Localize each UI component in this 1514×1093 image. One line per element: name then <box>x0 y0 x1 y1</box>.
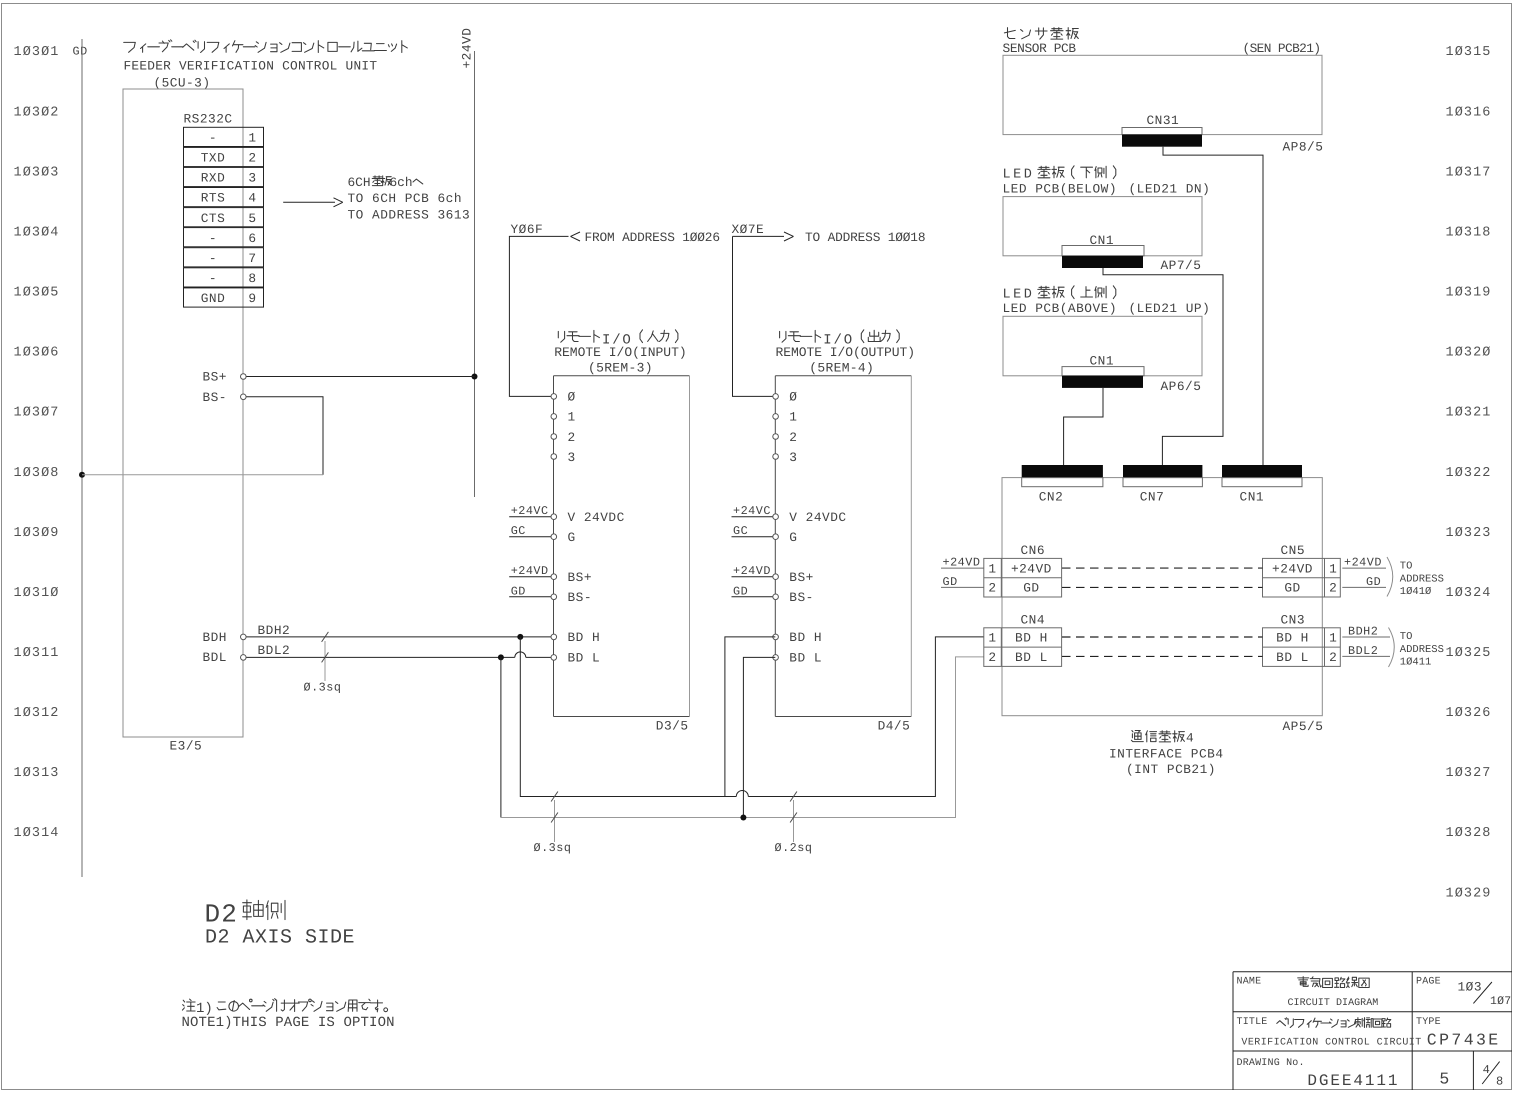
svg-text:YØ6F: YØ6F <box>511 222 544 237</box>
title block page cell <box>1416 976 1511 1008</box>
dashed wire CN6-CN5 +24VD <box>1062 567 1263 569</box>
svg-text:1Ø3Ø9: 1Ø3Ø9 <box>14 526 60 541</box>
svg-text:1Ø3: 1Ø3 <box>1458 980 1483 995</box>
svg-text:(5REM-4): (5REM-4) <box>809 360 874 375</box>
svg-text:+24VC: +24VC <box>733 504 771 518</box>
connector CN3 <box>1263 613 1341 667</box>
svg-text:BDH2: BDH2 <box>258 623 291 638</box>
svg-text:3: 3 <box>248 171 256 186</box>
title block type cell <box>1416 1017 1501 1050</box>
svg-text:+24VD: +24VD <box>733 564 771 578</box>
pin BS+ <box>241 374 247 380</box>
svg-text:BS+: BS+ <box>789 570 814 585</box>
svg-text:GD: GD <box>511 584 526 598</box>
wire GD vertical <box>81 39 83 877</box>
svg-text:+24VD: +24VD <box>1344 556 1382 570</box>
svg-text:2: 2 <box>248 151 256 166</box>
svg-text:CN1: CN1 <box>1240 489 1265 504</box>
svg-text:BS-: BS- <box>568 590 593 605</box>
svg-text:1Ø316: 1Ø316 <box>1446 105 1492 120</box>
net stub +24VD at CN6 <box>941 567 984 569</box>
svg-text:1Ø32Ø: 1Ø32Ø <box>1446 346 1492 361</box>
right margin line numbers 10315-10329 <box>1446 45 1492 901</box>
svg-text:AP7/5: AP7/5 <box>1161 258 1202 273</box>
wire BD H bus (D3/5 to CN4 pin1) <box>520 637 736 797</box>
net stub BDH2 at CN3 <box>1342 636 1390 638</box>
wire CN1 above to CN2 <box>1064 388 1103 465</box>
junction BDL2 node <box>498 654 504 660</box>
svg-text:GD: GD <box>73 45 88 59</box>
svg-text:3: 3 <box>568 450 576 465</box>
svg-text:1Ø411: 1Ø411 <box>1400 656 1432 668</box>
svg-text:(INT PCB21): (INT PCB21) <box>1126 762 1216 777</box>
svg-text:1Ø312: 1Ø312 <box>14 706 60 721</box>
svg-text:CIRCUIT DIAGRAM: CIRCUIT DIAGRAM <box>1288 998 1379 1009</box>
svg-text:BDL2: BDL2 <box>1348 644 1378 658</box>
svg-text:BS-: BS- <box>202 390 227 405</box>
net stub +24VD (input) <box>509 576 553 578</box>
wire +24VD vertical <box>474 51 476 497</box>
svg-text:AP6/5: AP6/5 <box>1161 379 1202 394</box>
svg-text:1Ø3Ø4: 1Ø3Ø4 <box>14 225 60 240</box>
svg-text:1Ø3Ø1: 1Ø3Ø1 <box>14 45 60 60</box>
dashed wire CN6-CN5 GD <box>1062 586 1263 588</box>
svg-text:1Ø41Ø: 1Ø41Ø <box>1400 586 1432 598</box>
remote I/O output pins <box>773 394 779 400</box>
svg-text:1Ø322: 1Ø322 <box>1446 466 1492 481</box>
svg-text:1Ø324: 1Ø324 <box>1446 586 1492 601</box>
svg-text:FEEDER VERIFICATION CONTROL UN: FEEDER VERIFICATION CONTROL UNIT <box>124 59 378 74</box>
svg-text:-: - <box>209 131 217 146</box>
svg-text:-: - <box>209 231 217 246</box>
title block title cell <box>1237 1017 1422 1048</box>
svg-text:BD H: BD H <box>1276 631 1309 646</box>
svg-text:4: 4 <box>1186 730 1194 745</box>
wire CN1 below to CN7 <box>1103 268 1223 465</box>
sensor PCB box <box>1003 55 1322 134</box>
svg-text:1Ø3Ø2: 1Ø3Ø2 <box>14 105 60 120</box>
wire BS- to GD <box>243 397 323 475</box>
svg-text:TO ADDRESS 3613: TO ADDRESS 3613 <box>348 208 471 223</box>
svg-text:GD: GD <box>1366 575 1381 589</box>
svg-text:TO: TO <box>1400 560 1413 572</box>
net stub +24VD (output) <box>732 576 775 578</box>
svg-text:GND: GND <box>201 291 226 306</box>
svg-text:BDL2: BDL2 <box>258 643 291 658</box>
svg-text:(LED21 UP): (LED21 UP) <box>1129 301 1211 316</box>
connector CN4 <box>984 613 1062 667</box>
svg-text:1: 1 <box>248 131 256 146</box>
feeder verification control unit 5CU-3 title <box>124 40 408 53</box>
LED PCB below title <box>1003 166 1211 197</box>
svg-text:2: 2 <box>1329 650 1337 665</box>
connector CN2 <box>1022 465 1103 478</box>
pin BDH <box>241 634 247 640</box>
svg-text:1Ø315: 1Ø315 <box>1446 45 1492 60</box>
annotation 6CH PCB address <box>348 175 471 223</box>
svg-text:BDL: BDL <box>202 650 227 665</box>
svg-text:Ø.2sq: Ø.2sq <box>775 841 813 855</box>
svg-text:AP5/5: AP5/5 <box>1283 719 1324 734</box>
svg-text:Ø: Ø <box>789 390 797 405</box>
svg-text:1Ø314: 1Ø314 <box>14 826 60 841</box>
svg-text:+24VD: +24VD <box>943 556 981 570</box>
svg-text:D2: D2 <box>205 900 239 930</box>
svg-text:GC: GC <box>733 524 748 538</box>
LED PCB above title <box>1003 286 1211 316</box>
svg-text:1Ø31Ø: 1Ø31Ø <box>14 586 60 601</box>
note 1 this page is option <box>182 999 395 1031</box>
svg-text:CN5: CN5 <box>1281 543 1306 558</box>
svg-text:CN6: CN6 <box>1021 543 1046 558</box>
svg-text:+24VC: +24VC <box>511 504 549 518</box>
wire gauge callout 0.3sq middle <box>554 800 556 842</box>
svg-text:5: 5 <box>248 211 256 226</box>
wire BD L bus (D3/5 to CN4 pin2) <box>500 657 502 817</box>
svg-text:2: 2 <box>1329 581 1337 596</box>
svg-text:1Ø329: 1Ø329 <box>1446 886 1492 901</box>
LED PCB above box <box>1003 316 1202 376</box>
svg-text:RS232C: RS232C <box>184 112 233 127</box>
wire X07E <box>733 236 776 396</box>
svg-text:D3/5: D3/5 <box>656 718 689 733</box>
svg-text:LED PCB(BELOW): LED PCB(BELOW) <box>1003 181 1118 196</box>
junction GD / BS- node <box>79 472 85 478</box>
svg-text:TO ADDRESS 1ØØ18: TO ADDRESS 1ØØ18 <box>805 230 926 245</box>
wire CN31 to CN1 <box>1163 147 1263 465</box>
dashed wire CN4-CN3 BD H <box>1062 636 1263 638</box>
svg-text:CN4: CN4 <box>1021 613 1046 628</box>
svg-text:LED PCB(ABOVE): LED PCB(ABOVE) <box>1003 301 1118 316</box>
svg-text:INTERFACE PCB4: INTERFACE PCB4 <box>1109 746 1224 761</box>
sensor PCB title <box>1004 28 1078 39</box>
brace to address 10411 <box>1389 628 1395 668</box>
wire Y06F <box>509 236 568 396</box>
svg-text:1Ø318: 1Ø318 <box>1446 225 1492 240</box>
arrow from address 10026 <box>571 232 581 241</box>
svg-text:1Ø313: 1Ø313 <box>14 766 60 781</box>
control unit 5CU-3 box <box>123 89 243 737</box>
svg-text:2: 2 <box>789 430 797 445</box>
svg-text:1Ø3Ø8: 1Ø3Ø8 <box>14 466 60 481</box>
svg-text:1Ø319: 1Ø319 <box>1446 286 1492 301</box>
svg-text:8: 8 <box>248 271 256 286</box>
svg-text:5: 5 <box>1439 1070 1449 1089</box>
wire BDH2 <box>243 636 554 638</box>
svg-text:Ø: Ø <box>568 390 576 405</box>
svg-text:(LED21 DN): (LED21 DN) <box>1129 181 1211 196</box>
svg-text:1Ø3Ø5: 1Ø3Ø5 <box>14 286 60 301</box>
svg-text:G: G <box>789 530 797 545</box>
svg-text:1Ø317: 1Ø317 <box>1446 165 1492 180</box>
remote I/O input 5REM-3 title <box>558 330 599 342</box>
net stub +24VC (output) <box>732 516 775 518</box>
svg-text:SENSOR PCB: SENSOR PCB <box>1003 41 1077 56</box>
svg-text:TO: TO <box>1400 631 1413 643</box>
svg-text:DRAWING No.: DRAWING No. <box>1237 1058 1305 1069</box>
svg-text:ADDRESS: ADDRESS <box>1400 573 1444 585</box>
svg-text:4: 4 <box>248 191 256 206</box>
svg-text:G: G <box>568 530 576 545</box>
svg-text:Ø.3sq: Ø.3sq <box>304 681 342 695</box>
net stub GD (output) <box>732 596 775 598</box>
svg-text:V 24VDC: V 24VDC <box>568 510 625 525</box>
svg-text:1Ø327: 1Ø327 <box>1446 766 1492 781</box>
svg-text:BS-: BS- <box>789 590 814 605</box>
svg-text:CTS: CTS <box>201 211 226 226</box>
svg-text:2: 2 <box>988 581 996 596</box>
svg-text:1Ø326: 1Ø326 <box>1446 706 1492 721</box>
dashed wire CN4-CN3 BD L <box>1062 655 1263 657</box>
net stub +24VC (input) <box>509 516 553 518</box>
svg-text:BD H: BD H <box>568 630 601 645</box>
svg-text:(SEN PCB21): (SEN PCB21) <box>1243 41 1322 56</box>
net stub GD (input) <box>509 596 553 598</box>
svg-text:BD L: BD L <box>1015 650 1048 665</box>
svg-text:+24VD: +24VD <box>460 28 475 69</box>
title block drawing number cell <box>1237 1058 1504 1090</box>
svg-text:2: 2 <box>568 430 576 445</box>
svg-text:CN3: CN3 <box>1281 613 1306 628</box>
svg-text:(5REM-3): (5REM-3) <box>588 360 653 375</box>
svg-text:PAGE: PAGE <box>1416 976 1441 987</box>
svg-text:E3/5: E3/5 <box>170 739 203 754</box>
svg-text:Ø.3sq: Ø.3sq <box>534 841 572 855</box>
svg-text:1Ø3Ø6: 1Ø3Ø6 <box>14 346 60 361</box>
svg-text:-: - <box>209 271 217 286</box>
svg-text:FROM ADDRESS 1ØØ26: FROM ADDRESS 1ØØ26 <box>585 230 721 245</box>
svg-text:1Ø328: 1Ø328 <box>1446 826 1492 841</box>
title block name cell <box>1237 976 1379 1009</box>
remote I/O output 5REM-4 box <box>775 375 911 377</box>
net stub GC (output) <box>732 536 775 538</box>
svg-text:6: 6 <box>248 231 256 246</box>
svg-text:1Ø311: 1Ø311 <box>14 646 60 661</box>
svg-text:GD: GD <box>1023 581 1039 596</box>
connector CN1 above <box>1062 367 1144 376</box>
wire BD H from D4/5 <box>725 637 775 797</box>
svg-text:1Ø325: 1Ø325 <box>1446 646 1492 661</box>
connector CN5 <box>1263 543 1341 597</box>
svg-text:BD L: BD L <box>568 651 601 666</box>
svg-text:GC: GC <box>511 524 526 538</box>
svg-text:ADDRESS: ADDRESS <box>1400 644 1444 656</box>
svg-text:BD H: BD H <box>789 630 822 645</box>
svg-text:BDH2: BDH2 <box>1348 625 1378 639</box>
pin BS- <box>241 394 247 400</box>
wire BDL2 with hop <box>243 656 515 658</box>
svg-text:RTS: RTS <box>201 191 226 206</box>
net stub GC (input) <box>509 536 553 538</box>
svg-text:CP743E: CP743E <box>1427 1031 1501 1050</box>
remote I/O output 5REM-4 title <box>780 330 821 342</box>
svg-text:9: 9 <box>248 291 256 306</box>
svg-text:BS+: BS+ <box>568 570 593 585</box>
net stub GD at CN6 <box>941 586 984 588</box>
connector CN1 interface <box>1222 465 1302 478</box>
svg-text:1Ø7: 1Ø7 <box>1490 995 1511 1008</box>
svg-text:BD L: BD L <box>789 651 822 666</box>
svg-text:D2 AXIS SIDE: D2 AXIS SIDE <box>205 926 355 949</box>
svg-text:1Ø323: 1Ø323 <box>1446 526 1492 541</box>
note D2 axis side <box>205 900 356 950</box>
svg-text:TITLE: TITLE <box>1237 1017 1268 1028</box>
svg-text:1: 1 <box>988 631 996 646</box>
LED PCB below box <box>1003 197 1202 256</box>
svg-text:XØ7E: XØ7E <box>732 222 765 237</box>
svg-text:LED: LED <box>1003 167 1035 182</box>
connector CN7 <box>1123 465 1202 478</box>
svg-text:8: 8 <box>1496 1074 1504 1088</box>
wire gauge callout 0.2sq <box>793 800 795 842</box>
connector RS232C pin table <box>184 127 264 307</box>
arrow to 6CH PCB <box>283 201 335 203</box>
svg-text:AP8/5: AP8/5 <box>1283 139 1324 154</box>
svg-text:6ch: 6ch <box>390 175 413 190</box>
svg-text:TYPE: TYPE <box>1416 1017 1441 1028</box>
svg-text:1: 1 <box>568 410 576 425</box>
svg-text:BD H: BD H <box>1015 631 1048 646</box>
remote I/O input pins <box>551 394 557 400</box>
svg-text:CN2: CN2 <box>1039 489 1064 504</box>
svg-text:2: 2 <box>988 650 996 665</box>
svg-text:CN31: CN31 <box>1147 113 1180 128</box>
svg-text:1: 1 <box>1329 631 1337 646</box>
wire BS+ to +24VD <box>243 376 475 378</box>
svg-text:+24VD: +24VD <box>511 564 549 578</box>
junction +24VD / BS+ node <box>472 374 478 380</box>
svg-text:(5CU-3): (5CU-3) <box>154 76 211 91</box>
svg-text:NOTE1)THIS PAGE IS OPTION: NOTE1)THIS PAGE IS OPTION <box>182 1015 395 1031</box>
svg-text:+24VD: +24VD <box>1272 561 1313 576</box>
svg-text:1: 1 <box>1329 561 1337 576</box>
wire gauge callout 0.3sq at control unit <box>324 641 326 681</box>
svg-text:GD: GD <box>733 584 748 598</box>
svg-text:BS+: BS+ <box>202 369 227 384</box>
connector CN31 <box>1122 128 1202 135</box>
svg-text:1Ø321: 1Ø321 <box>1446 406 1492 421</box>
svg-text:NAME: NAME <box>1237 976 1262 987</box>
svg-text:6CH: 6CH <box>348 175 371 190</box>
svg-text:CN1: CN1 <box>1090 353 1115 368</box>
svg-text:1Ø3Ø3: 1Ø3Ø3 <box>14 165 60 180</box>
svg-text:D4/5: D4/5 <box>878 718 911 733</box>
svg-text:DGEE4111: DGEE4111 <box>1307 1072 1399 1090</box>
net stub GD at CN5 <box>1342 586 1386 588</box>
interface PCB4 title <box>1109 730 1224 777</box>
svg-text:CN7: CN7 <box>1140 489 1165 504</box>
svg-text:TO 6CH PCB 6ch: TO 6CH PCB 6ch <box>348 191 463 206</box>
svg-text:VERIFICATION CONTROL CIRCUIT: VERIFICATION CONTROL CIRCUIT <box>1241 1037 1421 1048</box>
connector CN1 below <box>1062 246 1144 256</box>
interface PCB4 box <box>1002 478 1322 716</box>
net stub +24VD at CN5 <box>1342 567 1386 569</box>
remote I/O input 5REM-3 box <box>554 375 690 377</box>
svg-text:GD: GD <box>1284 581 1300 596</box>
pin BDL <box>241 655 247 661</box>
net stub BDL2 at CN3 <box>1342 655 1390 657</box>
connector CN6 <box>984 543 1062 597</box>
svg-text:+24VD: +24VD <box>1011 561 1052 576</box>
svg-text:7: 7 <box>248 251 256 266</box>
left margin line numbers 10301-10314 <box>14 45 60 841</box>
svg-text:V 24VDC: V 24VDC <box>789 510 846 525</box>
svg-text:REMOTE I/O(INPUT): REMOTE I/O(INPUT) <box>554 345 687 360</box>
svg-text:GD: GD <box>943 575 958 589</box>
arrow to address 10018 <box>784 232 794 241</box>
svg-text:1: 1 <box>789 410 797 425</box>
svg-text:RXD: RXD <box>201 171 226 186</box>
svg-text:BDH: BDH <box>202 630 227 645</box>
svg-text:BD L: BD L <box>1276 650 1309 665</box>
title block frame <box>1233 972 1512 1090</box>
junction BDH2 node <box>517 634 523 640</box>
svg-text:3: 3 <box>789 450 797 465</box>
wire BD L from D4/5 <box>743 657 775 817</box>
svg-text:1: 1 <box>988 561 996 576</box>
junction BD L node <box>740 815 746 821</box>
svg-text:-: - <box>209 251 217 266</box>
brace to address 10410 <box>1387 557 1393 597</box>
svg-text:TXD: TXD <box>201 151 226 166</box>
svg-text:1Ø3Ø7: 1Ø3Ø7 <box>14 406 60 421</box>
svg-text:REMOTE I/O(OUTPUT): REMOTE I/O(OUTPUT) <box>776 345 916 360</box>
